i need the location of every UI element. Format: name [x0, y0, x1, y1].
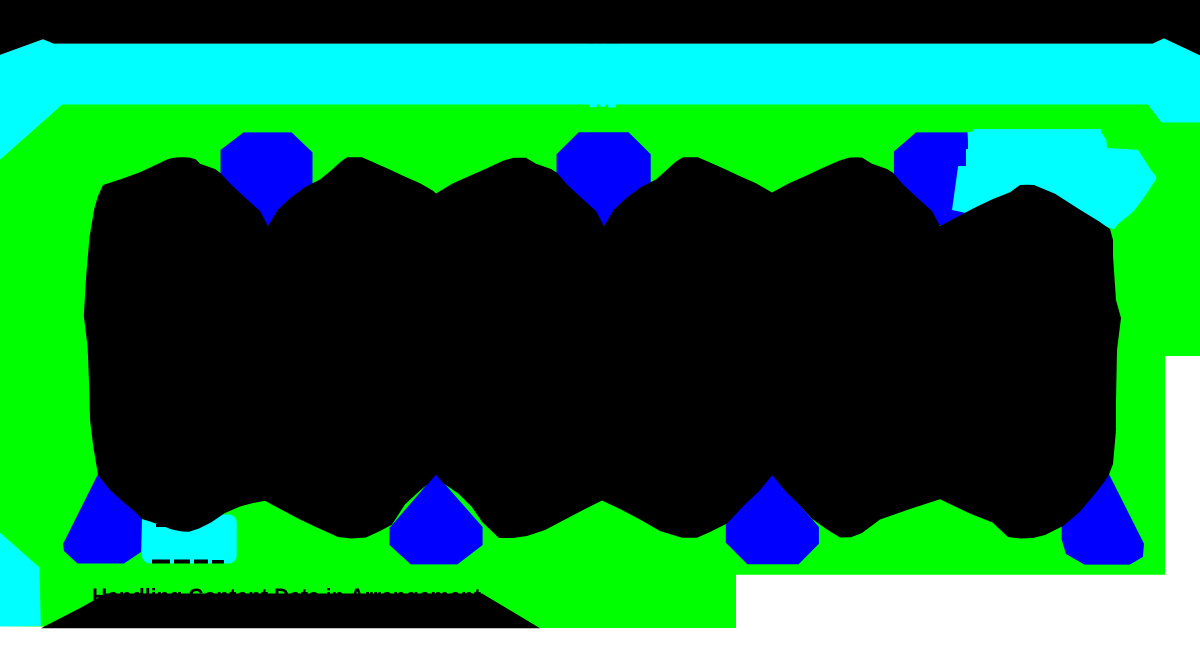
big black blob: [84, 157, 1121, 538]
black text dashes on chip: [152, 524, 224, 564]
blue octagon b2: [390, 474, 483, 564]
cyan swirl blob: [952, 132, 1157, 231]
blue octagon b1: [63, 474, 142, 564]
blue octagon o2: [557, 132, 651, 225]
black top band: [0, 0, 1200, 55]
cyan text bumps above band: [587, 41, 619, 108]
blue octagon b3: [726, 474, 819, 564]
cyan ribbon band: [0, 38, 1200, 159]
cyan chip bottom-left: [142, 515, 237, 564]
blue octagon o3: [894, 132, 987, 225]
blue octagon o1: [221, 132, 313, 225]
cyan text row above swirl: [973, 129, 1101, 133]
blue octagon b4: [1062, 474, 1144, 565]
green field: [0, 105, 1200, 629]
cyan wedge bottom-left: [0, 533, 41, 627]
black trapezoid over caption: [41, 594, 540, 629]
blue jaggy marks on swirl edge: [956, 141, 968, 149]
